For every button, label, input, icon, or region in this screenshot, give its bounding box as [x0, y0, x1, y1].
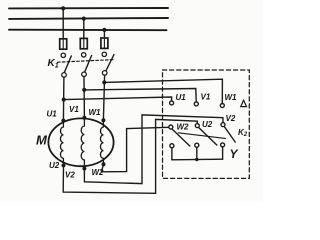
svg-text:U2: U2 [202, 120, 213, 129]
box terminal U1 [170, 101, 174, 105]
wire motor U2 to box terminal U2 [63, 119, 197, 193]
node branch C [102, 80, 106, 84]
wire drop phase C [103, 30, 105, 37]
node motor terminal V1 [82, 116, 86, 120]
wire phase A to motor U1 [62, 77, 65, 120]
box terminal V2 [221, 123, 225, 127]
wire branch B to box terminal V1 [84, 89, 196, 103]
wire bus L2 [9, 17, 168, 20]
node motor terminal V2 [82, 167, 86, 171]
motor M stator circle [48, 118, 113, 166]
svg-text:U1: U1 [176, 93, 187, 102]
node junction L1-A [61, 6, 65, 10]
box star terminal 2 [195, 143, 199, 147]
node motor terminal U2 [62, 163, 66, 167]
wire star stub 1 [171, 148, 173, 160]
wire phase C to motor W1 [103, 75, 104, 120]
contactor K1 contact 3 upper terminal [102, 52, 106, 56]
node motor terminal W1 [101, 118, 105, 122]
wire star stub 3 [222, 147, 224, 159]
node junction L3-C [102, 28, 106, 32]
node motor terminal U1 [61, 119, 65, 123]
wire star bus [172, 158, 223, 161]
contactor K2 blade 1 [172, 129, 190, 146]
terminal box dashed outline [163, 70, 250, 178]
wire star stub 2 [196, 147, 198, 159]
wire phase B to motor V1 [83, 77, 85, 118]
wire motor W2 to box terminal W2 [102, 127, 169, 172]
box terminal W2 [169, 125, 173, 129]
winding V (coil) [81, 118, 84, 169]
wire bus L1 [9, 7, 168, 9]
node junction L2-B [82, 17, 86, 21]
svg-text:V2: V2 [226, 114, 236, 123]
contactor K1 contact 1 lower terminal [62, 73, 67, 78]
svg-text:W1: W1 [89, 108, 102, 117]
contactor K1 contact 3 lower terminal [102, 71, 107, 76]
svg-text:W2: W2 [92, 168, 105, 177]
delta symbol [241, 100, 247, 106]
contactor K1 mechanical linkage (dashed) [58, 60, 114, 63]
fuse F1 [60, 39, 67, 49]
contactor K1 blade 3 [106, 55, 114, 71]
node star point [195, 158, 198, 161]
svg-text:U1: U1 [47, 110, 58, 119]
wire branch C to box terminal W1 [104, 79, 222, 103]
svg-text:V2: V2 [65, 171, 75, 180]
wire drop phase B [83, 19, 85, 38]
box terminal U2 [195, 124, 199, 128]
wire bus L3 [9, 29, 167, 32]
svg-text:V1: V1 [69, 105, 79, 114]
contactor K2 blade 3 [225, 127, 236, 142]
fuse F3 [101, 38, 108, 48]
fuse F2 [80, 38, 87, 48]
svg-text:U2: U2 [49, 161, 60, 170]
contactor K2 blade 2 [199, 128, 217, 145]
contactor K1 blade 2 [85, 56, 92, 72]
wire drop phase A [62, 8, 64, 37]
node motor terminal W2 [102, 162, 106, 166]
winding U (coil) [60, 121, 63, 166]
wire branch A to box terminal U1 [64, 97, 172, 101]
svg-text:W2: W2 [177, 123, 190, 132]
winding W (coil) [100, 120, 103, 164]
contactor K1 blade 1 [64, 56, 71, 72]
contactor K2 mechanical linkage [178, 133, 225, 139]
contactor K1 contact 2 lower terminal [82, 72, 87, 77]
box star terminal 1 [170, 144, 174, 148]
box star terminal 3 [221, 143, 225, 147]
svg-text:V1: V1 [201, 93, 211, 102]
svg-text:Y: Y [230, 147, 239, 161]
svg-text:M: M [36, 133, 48, 148]
wire motor V2 to box terminal V2 [84, 115, 223, 184]
box terminal W1 [220, 104, 224, 108]
contactor K1 contact 2 upper terminal [82, 53, 86, 57]
svg-text:W1: W1 [225, 93, 238, 102]
svg-text:K1: K1 [48, 58, 59, 70]
node branch A [62, 98, 66, 102]
node branch B [82, 88, 86, 92]
contactor K1 contact 1 upper terminal [61, 53, 65, 57]
svg-text:K2: K2 [238, 128, 248, 138]
box terminal V1 [194, 102, 198, 106]
